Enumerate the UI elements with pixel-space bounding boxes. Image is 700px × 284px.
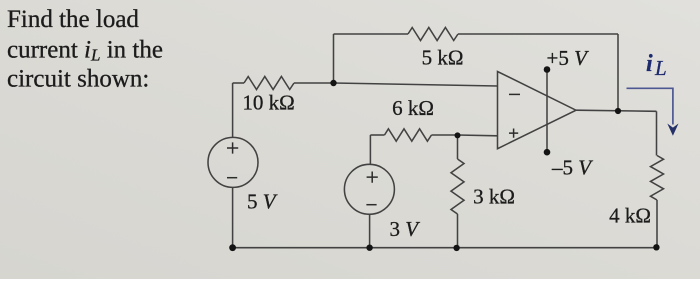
svg-text:circuit shown:: circuit shown: bbox=[7, 66, 149, 93]
svg-text:current iL in the: current iL in the bbox=[7, 37, 163, 65]
svg-text:3 V: 3 V bbox=[390, 217, 421, 241]
svg-text:10 kΩ: 10 kΩ bbox=[242, 91, 294, 115]
svg-text:5 kΩ: 5 kΩ bbox=[422, 46, 464, 70]
svg-text:–5 V: –5 V bbox=[551, 156, 593, 180]
svg-text:3 kΩ: 3 kΩ bbox=[473, 185, 515, 209]
svg-text:4 kΩ: 4 kΩ bbox=[609, 204, 651, 228]
svg-text:6 kΩ: 6 kΩ bbox=[392, 96, 434, 120]
svg-text:+5 V: +5 V bbox=[547, 46, 590, 70]
svg-text:Find the load: Find the load bbox=[7, 6, 139, 33]
svg-text:i: i bbox=[646, 51, 653, 77]
svg-text:5 V: 5 V bbox=[247, 190, 278, 214]
svg-text:L: L bbox=[654, 56, 667, 80]
